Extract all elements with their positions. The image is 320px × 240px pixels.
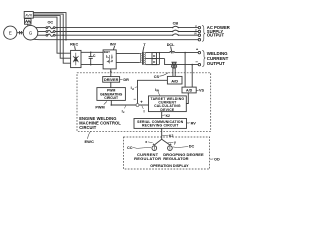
svg-text:d: d: [132, 87, 134, 91]
wire phase1: [36, 27, 46, 29]
wire VS sense +: [184, 53, 186, 88]
terminal +: [198, 51, 200, 53]
svg-text:VS: VS: [199, 89, 205, 93]
adc A/D (current): [167, 76, 182, 84]
svg-text:A/D: A/D: [186, 89, 193, 93]
wire split to regulators: [154, 139, 161, 145]
svg-text:K2: K2: [169, 134, 173, 138]
serial communication receiving circuit RV: [134, 119, 187, 129]
wire neutral: [34, 38, 199, 41]
svg-text:DCL: DCL: [167, 43, 175, 47]
svg-text:C: C: [93, 54, 96, 58]
wire secondary center tap: [146, 58, 165, 60]
adc A/D (voltage) VS: [182, 87, 196, 93]
terminal -: [198, 63, 200, 65]
wire center tap drop: [165, 59, 199, 65]
svg-text:G: G: [29, 31, 33, 36]
wire target out to junction: [139, 104, 149, 106]
node phase2 tap: [59, 31, 61, 33]
wire diode join bus: [158, 53, 160, 65]
wire inv to driver: [110, 69, 112, 77]
engine E: [4, 26, 17, 39]
label WELDING CURRENT OUTPUT: [207, 51, 229, 66]
target welding current calculating device: [149, 96, 187, 112]
svg-text:RV: RV: [191, 121, 197, 125]
pwm generating circuit: [97, 88, 126, 101]
svg-text:CIRCUIT: CIRCUIT: [104, 96, 119, 100]
potentiometer current regulator: [152, 146, 157, 151]
svg-text:REC: REC: [70, 43, 78, 47]
wire K2 target-serial: [161, 112, 163, 119]
svg-text:REGULATOR: REGULATOR: [134, 156, 161, 161]
svg-text:CB: CB: [173, 21, 179, 25]
box OD dashed (operation display): [124, 137, 210, 169]
wire dc rail bottom: [81, 64, 103, 66]
svg-text:OPERATION DISPLAY: OPERATION DISPLAY: [150, 164, 189, 168]
svg-text:+: +: [196, 47, 199, 52]
terminal W: [198, 34, 200, 36]
svg-text:IGBT: IGBT: [104, 50, 111, 54]
svg-text:W: W: [194, 32, 197, 36]
brace AC: [202, 26, 205, 42]
label Id: [135, 86, 137, 89]
diode D2: [152, 59, 157, 65]
wire VS sense -: [191, 65, 193, 88]
node neutral tap: [65, 39, 67, 41]
node phase1 tap: [56, 27, 58, 29]
summing junction: [136, 104, 139, 107]
wire driver to pwm: [110, 82, 112, 87]
voltage regulator AVR: [24, 12, 33, 19]
capacitor C: [90, 52, 92, 56]
svg-text:K2: K2: [166, 114, 170, 118]
svg-text:REGULATOR: REGULATOR: [163, 156, 188, 161]
label EWC: [88, 131, 91, 138]
svg-text:CIRCUIT: CIRCUIT: [79, 125, 97, 130]
wire dc rail top: [81, 51, 103, 53]
transistor Q1: [107, 55, 114, 64]
svg-text:DEVICE: DEVICE: [160, 108, 174, 112]
svg-text:E: E: [9, 30, 12, 35]
svg-text:I: I: [144, 110, 145, 114]
svg-text:x: x: [145, 140, 147, 144]
potentiometer drooping regulator: [168, 146, 173, 151]
svg-text:OUTPUT: OUTPUT: [207, 33, 225, 38]
svg-text:DRIVER: DRIVER: [104, 78, 119, 82]
svg-text:PWM: PWM: [95, 105, 104, 109]
svg-text:T: T: [143, 43, 146, 47]
svg-text:DR: DR: [123, 78, 129, 82]
generator G: [23, 25, 38, 40]
terminal O: [198, 39, 200, 41]
terminal U: [198, 26, 200, 28]
svg-text:AVR: AVR: [25, 13, 32, 17]
current sensor CS: [172, 62, 176, 64]
svg-text:−: −: [133, 97, 136, 102]
svg-text:y: y: [174, 140, 176, 144]
diode D1: [152, 53, 157, 59]
wire secondary top: [146, 52, 170, 54]
wire inv to primary top: [116, 52, 140, 54]
label DROOPING DEGREE REGULATOR: [163, 152, 204, 161]
svg-text:DC: DC: [189, 145, 195, 149]
svg-text:−: −: [195, 59, 198, 64]
svg-text:CS: CS: [154, 75, 160, 79]
AVR sense wires: [33, 13, 66, 40]
wire phase2: [38, 31, 46, 33]
svg-text:D: D: [153, 60, 156, 64]
node phase3 tap: [62, 34, 64, 36]
wire inv to primary bottom: [116, 61, 140, 63]
svg-text:INV: INV: [110, 42, 117, 46]
svg-text:RECEIVING CIRCUIT: RECEIVING CIRCUIT: [142, 124, 179, 128]
wire serial to display K2: [161, 128, 163, 139]
svg-text:OUTPUT: OUTPUT: [207, 61, 225, 66]
box EWC dashed: [77, 73, 211, 132]
svg-text:CC: CC: [127, 146, 133, 150]
shaft coupling: [17, 32, 20, 34]
svg-text:EWC: EWC: [85, 139, 94, 144]
wire phase3: [37, 34, 46, 36]
label CURRENT REGULATOR: [134, 152, 161, 161]
svg-text:D: D: [153, 54, 156, 58]
wire pwm feedback: [111, 100, 136, 105]
svg-text:c: c: [123, 110, 125, 114]
label AC POWER SUPPLY OUTPUT: [207, 25, 230, 37]
svg-text:+: +: [140, 99, 143, 104]
label ENGINE WELDING MACHINE CONTROL CIRCUIT: [79, 116, 121, 130]
svg-text:OC: OC: [47, 21, 53, 25]
driver DR: [103, 77, 120, 83]
svg-text:OD: OD: [214, 158, 220, 162]
field winding box: [25, 19, 32, 25]
svg-text:A/D: A/D: [171, 79, 178, 84]
terminal V: [198, 30, 200, 32]
svg-text:W: W: [156, 89, 159, 93]
brace welding: [202, 51, 205, 67]
wire secondary bottom: [146, 64, 160, 66]
wire Id feedback: [138, 80, 168, 103]
wire VS AD to target box: [186, 93, 188, 104]
